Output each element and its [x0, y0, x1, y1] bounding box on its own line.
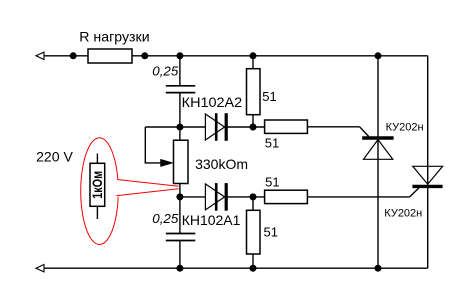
svg-text:КН102А1: КН102А1 — [182, 212, 241, 228]
svg-text:220 V: 220 V — [36, 149, 73, 165]
wire top rail — [37, 55, 428, 57]
thyristor VS2 cathode bar — [412, 185, 442, 188]
node dot top rail resistor branch — [250, 52, 257, 59]
capacitor C2 plates — [166, 234, 196, 241]
resistor R1 51 box — [247, 69, 261, 115]
dinistor VD1 КН102А2 triangle — [205, 114, 224, 140]
node dot bottom rail R4 — [250, 265, 257, 272]
svg-text:0,25: 0,25 — [152, 64, 178, 78]
svg-text:51: 51 — [265, 135, 279, 150]
node dot net2 R junction — [250, 193, 257, 200]
wire mid horizontal net 1 — [145, 126, 205, 128]
resistor R 330kOm top lead — [179, 127, 181, 140]
callout ellipse red — [81, 138, 118, 245]
svg-text:51: 51 — [264, 225, 278, 240]
svg-text:51: 51 — [262, 89, 276, 104]
node dot net2 junction — [176, 193, 183, 200]
thyristor VS1 КУ202н cathode bar — [362, 136, 393, 139]
resistor R4 51 bottom lead — [252, 254, 254, 268]
node dot net1 R junction — [250, 124, 257, 131]
wire mid horizontal net 2 — [180, 196, 206, 198]
wire gate 2 diagonal — [410, 188, 419, 197]
wire gate 2 horizontal — [307, 196, 409, 198]
thyristor VS1 triangle — [364, 140, 393, 160]
wire bypass to wiper: down from net1 corner — [145, 127, 162, 163]
resistor R 330kOm bottom lead — [179, 184, 181, 197]
resistor R1 51 vertical top lead — [252, 56, 254, 69]
node dot left of R load — [70, 52, 77, 59]
node dot right of R load — [141, 52, 148, 59]
resistor R3 51 horizontal box — [265, 190, 308, 203]
terminal arrow top-left — [36, 52, 44, 59]
node dot bottom rail capacitor branch — [176, 265, 183, 272]
wire net 2 dinistor to node — [226, 196, 265, 198]
wiper arrowhead into R 330kOm — [161, 159, 174, 166]
node dot top capacitor branch — [176, 52, 183, 59]
resistor 1кОм box — [90, 163, 105, 206]
resistor R load box — [88, 49, 132, 63]
wire capacitor C2 top lead — [179, 197, 181, 234]
svg-text:КУ202н: КУ202н — [386, 121, 424, 133]
svg-text:1кОм: 1кОм — [90, 171, 105, 199]
wire net 1 dinistor to node — [226, 126, 265, 128]
svg-text:КУ202н: КУ202н — [384, 208, 422, 220]
terminal arrow bottom-left — [36, 265, 44, 272]
wire bottom rail — [37, 267, 428, 269]
dinistor VD1 middle bar — [215, 113, 218, 141]
resistor 1кОм bottom lead — [96, 206, 98, 219]
callout wedge upper red line — [117, 180, 178, 187]
svg-text:0,25: 0,25 — [152, 212, 178, 226]
callout wedge lower red line — [116, 189, 178, 196]
wire thyristor 1 branch — [377, 56, 379, 268]
resistor R 330kOm box — [174, 140, 189, 183]
wire capacitor C2 bottom lead — [179, 241, 181, 269]
wire gate 1 diagonal — [360, 127, 369, 137]
dinistor VD2 cathode bar — [225, 183, 228, 211]
node dot bottom rail thyristor 1 — [375, 265, 382, 272]
svg-text:330kOm: 330kOm — [195, 156, 248, 172]
node dot top rail thyristor 1 — [375, 52, 382, 59]
svg-text:R нагрузки: R нагрузки — [79, 28, 149, 44]
wire gate 1 horizontal — [307, 126, 359, 128]
svg-text:51: 51 — [265, 174, 279, 189]
wire capacitor C1 bottom lead — [179, 93, 181, 127]
dinistor VD2 middle bar — [215, 183, 218, 211]
wire capacitor C1 top lead — [179, 56, 181, 86]
resistor R2 51 horizontal box — [265, 120, 308, 133]
capacitor C1 plates — [166, 86, 196, 93]
wire right rail — [427, 56, 429, 268]
node dot net1 capacitor junction — [176, 124, 183, 131]
dinistor VD2 КН102А1 triangle — [205, 184, 224, 210]
resistor R4 51 box — [247, 210, 261, 254]
thyristor VS2 КУ202н triangle — [413, 166, 443, 184]
resistor R4 51 vertical top lead — [252, 197, 254, 210]
resistor R1 51 bottom lead — [252, 115, 254, 127]
dinistor VD1 cathode bar — [225, 113, 228, 141]
svg-text:КН102А2: КН102А2 — [182, 94, 243, 110]
resistor 1кОм top lead — [96, 154, 98, 164]
